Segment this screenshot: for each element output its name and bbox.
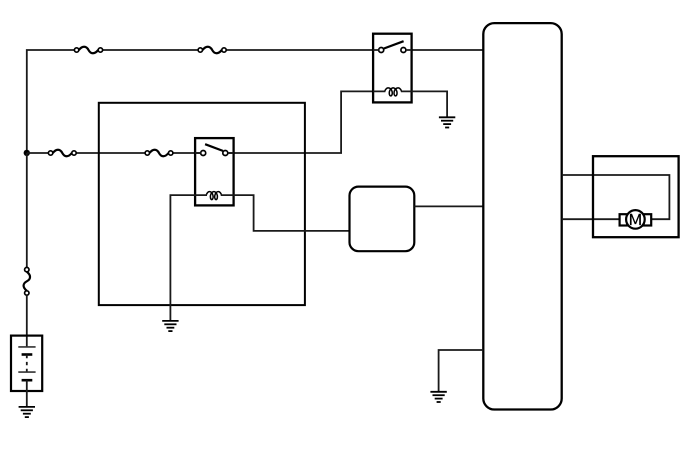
wire: K2 coil leads: [195, 194, 234, 196]
wire: control unit to pump motor (lower): [562, 218, 620, 220]
wire: K2 coil left to ground: [170, 195, 195, 321]
battery BAT1 outer box: [11, 336, 42, 391]
wire: K1 coil right to ground: [412, 91, 448, 117]
relay K1 box: [373, 34, 412, 103]
relay K1 switch: [379, 41, 406, 52]
ground GND1 (battery): [19, 406, 35, 408]
wire: control unit to pump motor (upper): [562, 175, 670, 219]
wire: middle feed to relay K2: [27, 152, 201, 154]
fuse F5 (vertical, battery feed): [24, 272, 30, 291]
wire: K1 switch leads: [373, 49, 412, 51]
relay K1 coil: [385, 88, 402, 96]
relay K2 coil: [206, 192, 221, 200]
relay K2 switch: [201, 144, 228, 155]
ground GND2 (module): [162, 320, 178, 322]
wire: K2 switch leads: [195, 152, 234, 154]
hydraulic control unit (large rounded box): [483, 23, 561, 409]
fuse F3 (middle feed, outside module): [53, 150, 72, 156]
relay K2 box: [195, 138, 234, 205]
wire: battery negative to ground: [26, 380, 28, 407]
fuse F1 (top bus, left): [79, 47, 98, 53]
wire: small module output to control unit: [414, 205, 483, 207]
fuse F2 (top bus, right): [203, 47, 222, 53]
wire: K1 coil leads: [373, 90, 412, 92]
wire: fuse F5 to battery: [26, 295, 28, 347]
wire: battery down-feed to fuse F5: [26, 153, 28, 267]
motor M1: [620, 210, 652, 229]
node: junction on battery bus: [24, 150, 30, 156]
fuse F4 (middle feed, inside module): [150, 150, 169, 156]
wire: relay K2 switch output up to relay K1 coil: [228, 91, 373, 153]
wire: K2 coil right to small module: [234, 195, 350, 231]
small control module (rounded): [350, 187, 415, 252]
wire: relay K1 switch output to control unit: [412, 49, 484, 51]
ground GND4 (control unit): [430, 391, 446, 393]
pump assembly box: [593, 156, 679, 237]
battery BAT1 plates: [18, 347, 35, 380]
wire: control unit ground lead: [439, 350, 484, 392]
control module box (large, center): [99, 103, 305, 305]
wire: battery positive feed, top horizontal bus: [27, 50, 373, 153]
ground GND3 (relay K1): [439, 116, 455, 118]
